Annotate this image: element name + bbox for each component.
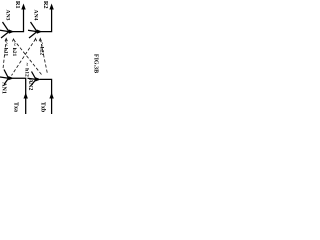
svg-text:AN1: AN1 [1, 82, 7, 94]
svg-text:AN3: AN3 [5, 10, 11, 21]
svg-text:R1: R1 [14, 1, 21, 9]
svg-text:FIG.3B: FIG.3B [93, 54, 99, 73]
svg-text:Txb: Txb [40, 102, 46, 113]
svg-text:h22: h22 [38, 47, 44, 56]
svg-text:h21: h21 [11, 48, 17, 57]
svg-text:R2: R2 [42, 1, 49, 9]
svg-text:Txa: Txa [13, 102, 19, 112]
svg-text:AN4: AN4 [33, 10, 39, 21]
svg-text:h11: h11 [2, 48, 8, 57]
svg-text:AN2: AN2 [27, 79, 33, 91]
svg-text:h12: h12 [23, 68, 29, 77]
